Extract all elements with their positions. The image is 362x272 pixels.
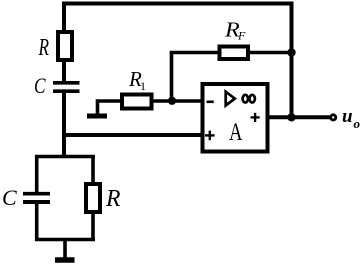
capacitor C (parallel, top plate) [23,192,50,196]
resistor R (parallel branch) [86,184,100,212]
op-amp label A [229,119,243,146]
capacitor C (series, top plate) [53,81,80,85]
label uo (output voltage) [342,106,361,131]
ground (left of R1) [87,114,107,119]
node: junction dot at inverting input / feedback tap [168,97,176,105]
op-amp minus sign (inverting input) [207,101,214,104]
resistor RF [220,47,249,60]
op-amp infinity symbol [243,95,255,103]
wire parallel network bottom [35,238,95,242]
wire riser to RF left [170,51,219,55]
wire RF right to right riser [248,51,293,55]
op-amp input plus sign (non-inverting) [205,131,215,141]
wire from R to series capacitor C [62,60,66,82]
wire to bottom ground [63,239,67,259]
wire from ground up and right to R1 [98,101,123,115]
wire to op-amp non-inverting input [64,133,202,137]
svg-text:R: R [38,35,49,61]
wire op-amp output [268,115,331,119]
svg-text:A: A [229,119,243,146]
capacitor C (parallel, bottom plate) [23,200,50,204]
resistor R (top-left series branch) [58,32,72,60]
node: junction dot at output riser [287,113,295,121]
wire from series C down to parallel network [62,91,66,158]
label RF [224,18,246,43]
wire R branch lower (parallel) [91,212,95,241]
op-amp triangle symbol [226,92,235,106]
resistor R1 [122,95,152,109]
label C (series capacitor) [34,73,46,98]
op-amp output plus sign [251,113,260,122]
wire top loop: from top of left R, across top, down right side to output node [64,4,292,118]
svg-text:u: u [342,106,353,127]
svg-text:o: o [354,116,361,131]
node: junction dot RF to output riser [287,48,295,56]
ground (bottom of parallel network) [55,257,75,263]
wire parallel network top [35,155,95,159]
output terminal (open circle) [331,115,336,120]
label R (top-left resistor) [38,35,49,61]
label R1 [128,67,146,93]
svg-text:F: F [237,29,246,43]
capacitor C (series, bottom plate) [53,89,80,93]
wire C branch upper (parallel) [35,155,39,194]
wire C branch lower (parallel) [35,202,39,241]
svg-text:C: C [34,73,46,98]
op-amp U1 box [203,84,268,152]
svg-text:1: 1 [140,79,146,93]
label R (parallel resistor) [105,186,121,212]
svg-text:R: R [105,186,121,212]
wire R1 to op-amp inverting input [151,99,202,103]
wire feedback vertical riser [170,53,174,102]
svg-text:C: C [2,185,17,210]
wire R branch upper (parallel) [91,155,95,184]
label C (parallel capacitor) [2,185,17,210]
